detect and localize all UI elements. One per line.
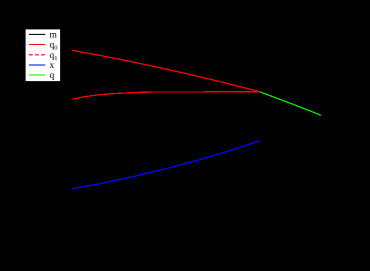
svg-text:m: m xyxy=(50,31,58,41)
legend entry x xyxy=(29,61,55,71)
curve q0 (upper red, descending) xyxy=(72,50,259,91)
legend entry q1 (dashed) xyxy=(29,51,58,62)
legend box xyxy=(25,29,60,82)
svg-text:q: q xyxy=(50,71,55,81)
svg-text:x: x xyxy=(50,61,55,71)
curve x (blue, rising) xyxy=(73,141,260,189)
legend entry q xyxy=(29,71,55,81)
curve q (green, descending after burnout) xyxy=(260,92,321,116)
legend entry q0 xyxy=(29,41,58,52)
legend entry m xyxy=(29,31,58,41)
curve q1 (lower red, rising then flat) xyxy=(73,92,260,100)
